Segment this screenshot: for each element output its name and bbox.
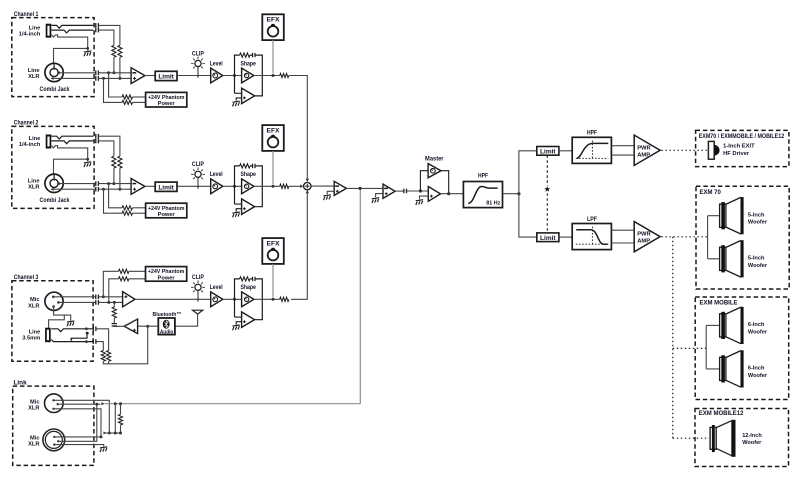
- label Mic XLR link male: [28, 399, 39, 411]
- link wire B1: [54, 436, 101, 438]
- label EXM 70: [700, 190, 722, 196]
- svg-text:Limit: Limit: [540, 149, 556, 156]
- asterisk footnote mark: [86, 332, 89, 335]
- svg-text:XLR: XLR: [28, 303, 39, 309]
- wire phantom feed cold: [104, 78, 123, 102]
- HPF crossover filter block: [572, 137, 611, 163]
- wire channel 2 to summing node: [289, 185, 304, 188]
- svg-text:Woofer: Woofer: [748, 329, 768, 335]
- svg-text:Audio: Audio: [160, 329, 174, 335]
- svg-text:Combi Jack: Combi Jack: [40, 198, 71, 204]
- HPF 81 Hz filter block: [463, 182, 502, 208]
- label EXM MOBILE: [700, 301, 738, 307]
- wire bus amp to line amp: [346, 187, 383, 190]
- coupling capacitor tip line: [96, 134, 99, 139]
- svg-text:Level: Level: [210, 284, 223, 291]
- link wire T2 to bus: [58, 402, 105, 405]
- feedback resistor: [240, 53, 250, 57]
- shape gain op-amp with knob: [242, 68, 254, 83]
- label LPF crossover: [587, 216, 597, 223]
- wire to phantom box 2: [133, 212, 146, 214]
- HF PWR AMP: [634, 135, 660, 165]
- EXM MOBILE12 dashed box: [695, 409, 789, 467]
- svg-text:HF Driver: HF Driver: [723, 151, 750, 157]
- phantom resistor cold: [122, 100, 132, 104]
- wire cap to master amp: [407, 189, 429, 192]
- link XLR male connector: [45, 394, 64, 413]
- coupling capacitor ring line: [96, 28, 99, 33]
- wire from EFX down to bus: [272, 151, 274, 184]
- master volume amp with knob: [420, 164, 448, 194]
- wire HPF to crossover split: [503, 192, 521, 195]
- combi XLR connector channel 2: [45, 174, 63, 192]
- wire to phantom box: [133, 96, 146, 98]
- wire level to shape ch3: [223, 298, 242, 301]
- svg-text:HPF: HPF: [587, 130, 597, 137]
- svg-text:XLR: XLR: [28, 442, 39, 448]
- wire XLR hot out: [57, 71, 96, 74]
- summing node: [304, 182, 311, 189]
- ground: [232, 325, 239, 330]
- wire channel 1 to summing node: [289, 76, 309, 183]
- 6-inch woofer A: [720, 307, 768, 344]
- LF PWR AMP: [634, 222, 660, 252]
- EXM70 / EXMMOBILE / MOBILE12 tweeter dashed box: [696, 130, 789, 166]
- wire phantom feed hot: [109, 73, 123, 97]
- pad resistor R1: [118, 156, 122, 168]
- Bluetooth antenna: [175, 310, 203, 326]
- Shape EQ block: [235, 279, 263, 320]
- ground: [372, 198, 379, 203]
- EFX send block: [262, 125, 284, 151]
- wire tip line to pad resistor: [98, 136, 120, 156]
- wire mic hot out: [53, 296, 95, 298]
- wire XLR hot out: [57, 182, 96, 185]
- ground: [84, 51, 91, 56]
- label Line XLR: [28, 68, 40, 80]
- Channel 3 input section dashed box: [12, 281, 93, 362]
- wire LF limit to LPF: [559, 236, 572, 238]
- wire cold line to preamp: [98, 188, 131, 191]
- svg-text:1/4-inch: 1/4-inch: [19, 142, 41, 148]
- wire shape to efx node: [254, 74, 280, 77]
- jack tip contact 3.5mm: [51, 327, 93, 331]
- link output bus wire: [105, 188, 361, 405]
- shape lower op-amp: [235, 312, 255, 328]
- wire pad resistor to cold line: [118, 168, 121, 191]
- shape gain op-amp with knob: [242, 292, 254, 307]
- Bluetooth Audio module: [158, 318, 175, 335]
- svg-text:Combi Jack: Combi Jack: [40, 87, 71, 93]
- svg-text:Limit: Limit: [540, 235, 556, 242]
- label Channel 1: [14, 11, 39, 18]
- wire node to bus amp: [311, 185, 334, 187]
- label HPF crossover: [587, 130, 597, 137]
- wire XLR cold out: [51, 77, 96, 80]
- label Line 3.5mm: [22, 330, 40, 342]
- svg-text:Shape: Shape: [240, 60, 256, 67]
- svg-text:81 Hz: 81 Hz: [486, 201, 500, 207]
- shape lower op-amp: [235, 199, 255, 215]
- svg-text:LPF: LPF: [587, 216, 597, 223]
- coupling capacitor XLR cold: [96, 187, 99, 192]
- jack ring switch contact: [52, 30, 94, 33]
- +24V Phantom Power box: [146, 203, 187, 218]
- svg-text:6-Inch: 6-Inch: [748, 366, 765, 372]
- shape gain op-amp with knob: [242, 179, 254, 194]
- svg-text:XLR: XLR: [28, 185, 39, 191]
- phantom resistor cold: [122, 211, 132, 215]
- dotted branch to EXM MOBILE: [673, 347, 706, 349]
- CLIP indicator LED: [191, 161, 205, 189]
- ground: [67, 321, 74, 326]
- wire preamp to level ch3: [135, 298, 211, 300]
- phantom resistor hot ch3: [119, 269, 129, 273]
- Level amp with knob: [210, 60, 223, 83]
- mix resistor R6: [101, 351, 105, 362]
- svg-text:Level: Level: [210, 60, 223, 67]
- svg-text:Power: Power: [158, 101, 176, 107]
- HF Limit block: [537, 147, 559, 156]
- wire mic cold out: [58, 301, 95, 303]
- wire 3.5mm ring to mix resistor: [96, 342, 103, 351]
- svg-text:+24V Phantom: +24V Phantom: [148, 95, 185, 101]
- label Line 1/4-inch: [19, 136, 41, 148]
- wire mic hot to preamp: [98, 295, 122, 298]
- mic XLR connector channel 3: [45, 292, 63, 310]
- wire shape to efx node: [254, 185, 280, 188]
- 3.5mm jack connector: [45, 328, 51, 343]
- feedback resistor: [240, 277, 250, 281]
- svg-text:6-Inch: 6-Inch: [748, 322, 765, 328]
- label Combi Jack: [40, 198, 71, 204]
- 1-inch exit HF driver: [708, 141, 719, 159]
- input preamp op-amp channel 1: [131, 68, 145, 84]
- wire hot line to preamp: [98, 71, 131, 74]
- link rail wire: [103, 432, 120, 435]
- wire preamp to limiter: [145, 185, 155, 187]
- svg-text:Mic: Mic: [30, 435, 39, 441]
- link XLR female connector: [43, 429, 65, 451]
- input preamp op-amp channel 2: [131, 179, 145, 195]
- Channel 1 input section dashed box: [12, 18, 94, 97]
- ground: [100, 447, 107, 452]
- svg-text:XLR: XLR: [28, 74, 39, 80]
- EXM MOBILE speaker feed wire: [706, 325, 719, 369]
- crossover split wire: [519, 151, 537, 237]
- svg-text:+24V Phantom: +24V Phantom: [148, 206, 185, 212]
- svg-text:1-Inch EXIT: 1-Inch EXIT: [723, 144, 755, 150]
- label Link: [14, 380, 28, 387]
- coupling capacitor 3.5mm tip: [93, 327, 96, 332]
- svg-text:Channel 1: Channel 1: [14, 11, 39, 18]
- bluetooth coupling capacitor: [112, 324, 117, 326]
- Shape EQ block: [235, 55, 263, 96]
- Level amp with knob: [210, 171, 223, 194]
- wire capacitor to resistor: [113, 318, 115, 324]
- svg-text:+24V Phantom: +24V Phantom: [148, 269, 185, 275]
- wires HPF2 to HF power amp: [611, 146, 634, 155]
- svg-text:Link: Link: [14, 380, 28, 387]
- wire from EFX down to bus ch3: [272, 264, 274, 297]
- svg-text:Woofer: Woofer: [748, 263, 768, 269]
- EFX send block: [262, 238, 284, 264]
- 5-inch woofer A: [720, 197, 768, 234]
- wire mic cold to preamp: [98, 301, 122, 304]
- link wire T3: [54, 409, 103, 439]
- svg-text:AMP: AMP: [637, 239, 650, 245]
- svg-text:Shape: Shape: [240, 171, 256, 178]
- dotted wire HF amp to driver: [662, 149, 708, 151]
- Level amp with knob: [210, 284, 223, 307]
- master output op-amp U6: [420, 187, 441, 202]
- jack sleeve contact 3.5mm: [51, 340, 93, 344]
- svg-text:Level: Level: [210, 171, 223, 178]
- wire to phantom box: [133, 207, 146, 209]
- shape lower op-amp: [235, 88, 255, 104]
- mix resistor R5: [107, 351, 111, 362]
- coupling capacitor 3.5mm ring: [93, 339, 96, 344]
- coupling capacitor tip line: [96, 23, 99, 28]
- svg-text:Line: Line: [28, 68, 40, 74]
- svg-text:Line: Line: [29, 136, 41, 142]
- coupling capacitor mic cold: [96, 300, 99, 305]
- wire channel 3 to summing node: [291, 190, 309, 299]
- limiter link dashed wire: [546, 155, 548, 233]
- coupling capacitor XLR hot: [96, 71, 99, 76]
- wire preamp to limiter: [145, 75, 155, 77]
- coupling capacitor ring line: [96, 139, 99, 144]
- svg-text:Channel 3: Channel 3: [14, 274, 39, 281]
- jack ring link contact: [70, 335, 87, 342]
- svg-text:EXM 70: EXM 70: [700, 190, 722, 196]
- label EXM MOBILE12: [699, 411, 744, 417]
- +24V Phantom Power box channel 3: [146, 267, 187, 282]
- coupling capacitor XLR cold: [96, 76, 99, 81]
- bluetooth mix resistor: [112, 307, 116, 318]
- wire HF limit to HPF2: [559, 150, 572, 152]
- LPF crossover filter block: [572, 224, 611, 250]
- summing resistor: [280, 184, 289, 188]
- wire tip line to pad resistor: [98, 25, 120, 45]
- feedback resistor: [240, 164, 250, 168]
- phantom resistor hot: [122, 95, 132, 99]
- master coupling capacitor: [404, 189, 407, 194]
- wire from EFX down to bus: [272, 40, 274, 73]
- bus amp op-amp U4: [327, 181, 346, 195]
- wire phantom feed hot ch3: [103, 271, 118, 297]
- ground: [84, 162, 91, 167]
- phantom resistor cold ch3: [119, 277, 129, 281]
- link termination resistor: [118, 404, 122, 435]
- Shape EQ block: [235, 166, 263, 207]
- wires LPF to LF power amp: [611, 230, 634, 243]
- svg-text:Power: Power: [158, 275, 176, 281]
- jack sleeve wire to ground: [52, 146, 88, 162]
- Limit block: [155, 71, 177, 80]
- jack tip switch contact: [52, 136, 94, 139]
- 12-inch woofer: [710, 420, 762, 457]
- svg-text:Woofer: Woofer: [748, 220, 768, 226]
- coupling capacitor mic hot: [96, 295, 99, 300]
- svg-text:EFX: EFX: [267, 17, 281, 24]
- wire limiter to level: [177, 75, 211, 77]
- summing resistor: [280, 73, 289, 77]
- svg-text:Line: Line: [29, 25, 41, 31]
- wire hot line to preamp: [98, 182, 131, 185]
- wire ring line to pad resistor: [98, 141, 114, 156]
- svg-text:EXM MOBILE12: EXM MOBILE12: [699, 411, 744, 417]
- label EXM70 / EXMMOBILE / MOBILE12: [699, 134, 785, 140]
- svg-text:AMP: AMP: [637, 152, 650, 158]
- svg-text:PWR: PWR: [637, 145, 651, 151]
- wire phantom feed cold: [104, 189, 123, 213]
- wire bluetooth box to buffer amp: [138, 325, 159, 327]
- svg-text:3.5mm: 3.5mm: [22, 336, 40, 342]
- wire to phantom box 2: [133, 101, 146, 103]
- ground: [323, 195, 330, 200]
- svg-text:CLIP: CLIP: [192, 274, 204, 281]
- EXM 70 dashed box: [696, 186, 789, 289]
- wire mix rail to bluetooth amp input: [103, 325, 149, 364]
- wire pad resistor to cold line: [118, 57, 121, 80]
- summing resistor ch3: [280, 297, 289, 301]
- feedback capacitor: [250, 164, 257, 168]
- +24V Phantom Power box: [146, 92, 187, 107]
- wire pad resistor to hot line: [112, 57, 115, 74]
- 5-inch woofer B: [720, 240, 768, 277]
- wire 3.5mm tip to mix resistor: [96, 329, 109, 351]
- jack tip switch contact: [52, 25, 94, 28]
- svg-text:Line: Line: [29, 330, 41, 336]
- wire phantom feed hot: [109, 184, 123, 208]
- ground: [232, 212, 239, 217]
- label Bluetooth TM: [153, 312, 182, 318]
- line amp op-amp U5: [376, 184, 396, 198]
- svg-text:Shape: Shape: [240, 284, 256, 291]
- label Channel 3: [14, 274, 39, 281]
- dotted branch to MOBILE12 woofer: [673, 437, 709, 439]
- wire ring line to pad resistor: [98, 30, 114, 45]
- pad resistor R1: [118, 45, 122, 57]
- svg-text:EFX: EFX: [267, 241, 281, 248]
- svg-text:PWR: PWR: [637, 232, 651, 238]
- dotted branch down: [672, 237, 674, 438]
- svg-text:EFX: EFX: [267, 128, 281, 135]
- XLR shell ground wire: [54, 158, 90, 174]
- EXM 70 speaker feed wire: [708, 216, 720, 259]
- XLR shell ground wire: [54, 47, 90, 63]
- svg-text:Mic: Mic: [30, 399, 39, 405]
- link wire B3 to ground: [54, 445, 103, 447]
- wire cold line to preamp: [98, 77, 131, 80]
- XLR pin1 wire to ground and jack sleeve: [49, 307, 71, 328]
- bluetooth buffer amp (points left): [124, 319, 137, 334]
- label HPF main: [478, 172, 488, 179]
- svg-text:Line: Line: [28, 179, 40, 185]
- wire level to shape: [223, 185, 242, 188]
- CLIP indicator LED: [191, 274, 205, 302]
- wires resistors to phantom box ch3: [129, 271, 146, 279]
- wire XLR cold out: [51, 188, 96, 191]
- link vertical tie: [114, 404, 116, 433]
- svg-text:CLIP: CLIP: [192, 161, 204, 168]
- mic preamp op-amp channel 3: [123, 292, 135, 307]
- svg-text:Mic: Mic: [30, 297, 39, 303]
- svg-text:Woofer: Woofer: [748, 373, 768, 379]
- jack ring switch contact: [52, 141, 94, 144]
- 6-inch woofer B: [720, 350, 768, 387]
- LF Limit block: [537, 233, 559, 242]
- Link section dashed box: [13, 386, 94, 465]
- svg-text:12-Inch: 12-Inch: [742, 433, 762, 439]
- ground: [232, 101, 239, 106]
- svg-text:5-Inch: 5-Inch: [748, 256, 765, 262]
- EFX send block: [262, 14, 284, 40]
- svg-text:Master: Master: [425, 155, 444, 162]
- label Mic XLR link female: [28, 435, 39, 447]
- label 1-Inch EXIT HF Driver: [723, 144, 755, 157]
- jack sleeve wire to ground: [52, 35, 88, 51]
- wire phantom feed cold ch3: [109, 279, 119, 303]
- Channel 2 input section dashed box: [12, 126, 94, 208]
- svg-text:Limit: Limit: [158, 74, 174, 81]
- feedback capacitor: [250, 53, 257, 57]
- label Line XLR: [28, 179, 40, 191]
- wire resistor to mic line: [113, 302, 115, 307]
- feedback capacitor: [250, 277, 257, 281]
- wire master to HPF: [441, 192, 464, 195]
- pad resistor R2: [112, 156, 116, 168]
- Limit block: [155, 182, 177, 191]
- svg-text:5-Inch: 5-Inch: [748, 213, 765, 219]
- wire level to shape: [223, 74, 242, 77]
- combi XLR connector channel 1: [45, 63, 63, 81]
- coupling capacitor XLR hot: [96, 181, 99, 186]
- svg-text:Power: Power: [158, 212, 176, 218]
- svg-text:XLR: XLR: [28, 405, 39, 411]
- svg-text:Limit: Limit: [158, 184, 174, 191]
- svg-text:EXM MOBILE: EXM MOBILE: [700, 301, 738, 307]
- link wire T1: [54, 400, 111, 434]
- quarter-inch jack connector J2: [46, 135, 52, 149]
- phantom resistor hot: [122, 206, 132, 210]
- label Mic XLR: [28, 297, 39, 309]
- link wire B2: [58, 403, 98, 441]
- wire shape to efx node ch3: [254, 298, 280, 301]
- svg-text:Woofer: Woofer: [742, 440, 762, 446]
- CLIP indicator LED: [191, 50, 205, 78]
- svg-text:EXM70 / EXMMOBILE / MOBILE12: EXM70 / EXMMOBILE / MOBILE12: [699, 134, 785, 140]
- ground: [416, 200, 423, 205]
- svg-text:CLIP: CLIP: [192, 50, 204, 57]
- svg-text:Channel 2: Channel 2: [14, 120, 39, 127]
- label Channel 2: [14, 120, 39, 127]
- quarter-inch jack connector J1: [46, 24, 52, 38]
- limiter link star: [544, 186, 550, 192]
- svg-text:HPF: HPF: [478, 172, 488, 179]
- wire buffer to capacitor: [114, 325, 124, 328]
- svg-text:1/4-inch: 1/4-inch: [19, 31, 41, 37]
- dotted wire LF amp to speakers: [662, 236, 708, 238]
- pad resistor R2: [112, 45, 116, 57]
- label Line 1/4-inch: [19, 25, 41, 37]
- label Master: [425, 155, 444, 162]
- svg-text:Bluetooth™: Bluetooth™: [153, 312, 182, 318]
- wire limiter to level: [177, 185, 211, 187]
- wire pad resistor to hot line: [112, 168, 115, 185]
- EXM MOBILE dashed box: [695, 297, 789, 400]
